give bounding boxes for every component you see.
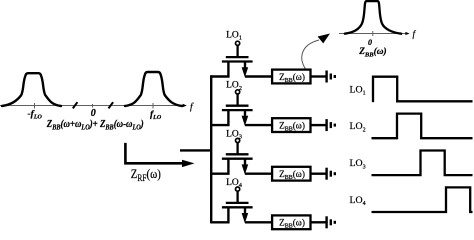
- svg-text:0: 0: [368, 38, 372, 47]
- svg-text:ZBB(ω+ωLO)+ ZBB(ω-ωLO): ZBB(ω+ωLO)+ ZBB(ω-ωLO): [46, 119, 144, 132]
- svg-text:ZRF(ω): ZRF(ω): [131, 166, 161, 183]
- svg-text:0: 0: [91, 108, 96, 119]
